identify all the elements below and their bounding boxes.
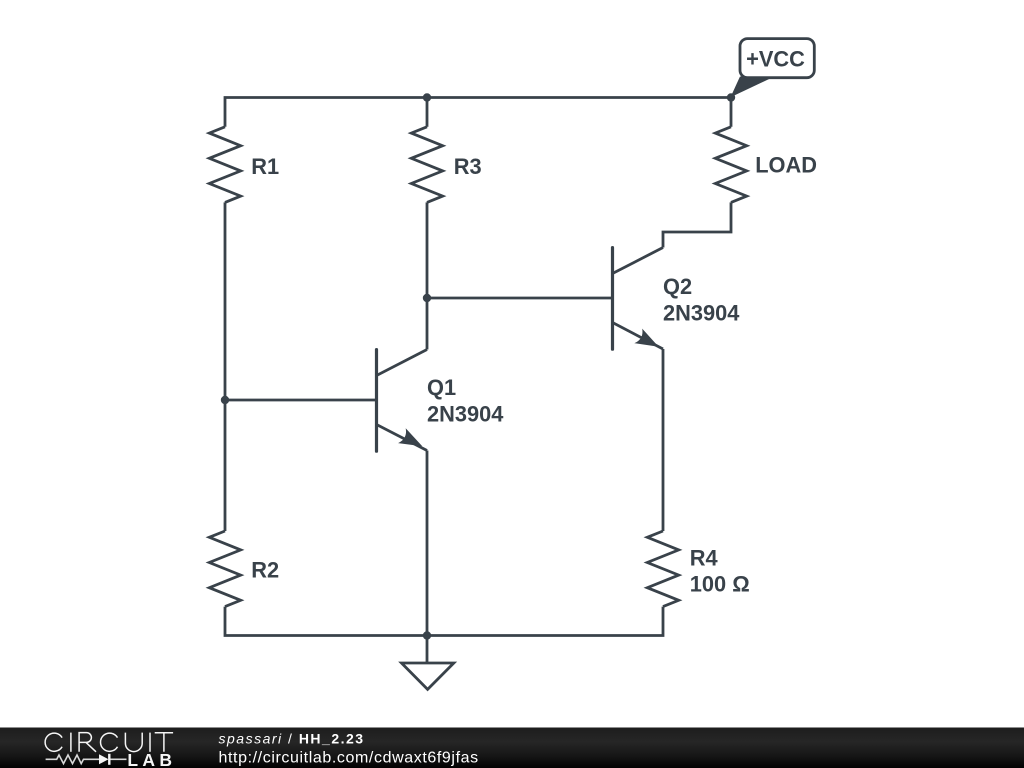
svg-text:Q1: Q1 bbox=[427, 375, 456, 400]
node junction Q2 base bbox=[423, 294, 431, 302]
svg-text:R2: R2 bbox=[251, 558, 279, 583]
wire R3 top stub bbox=[426, 98, 429, 127]
svg-text:100 Ω: 100 Ω bbox=[690, 571, 750, 596]
ground bbox=[402, 636, 454, 690]
svg-text:R4: R4 bbox=[690, 545, 718, 570]
wire top rail bbox=[225, 98, 731, 127]
transistor Q2 bbox=[613, 248, 664, 350]
svg-text:+VCC: +VCC bbox=[746, 47, 805, 72]
wire left rail middle bbox=[224, 202, 227, 531]
wire Q2 emitter to R4 bbox=[662, 349, 665, 531]
svg-text:2N3904: 2N3904 bbox=[663, 300, 739, 325]
svg-text:spassari / HH_2.23: spassari / HH_2.23 bbox=[219, 731, 365, 747]
wire R3 bottom to node bbox=[426, 202, 429, 298]
wire bottom rail bbox=[225, 607, 663, 636]
resistor R4 bbox=[647, 531, 678, 607]
node junction top VCC bbox=[727, 93, 735, 101]
svg-text:R1: R1 bbox=[251, 154, 279, 179]
net flag +VCC bbox=[731, 39, 815, 98]
wire Q1 base bbox=[225, 399, 377, 402]
svg-text:2N3904: 2N3904 bbox=[427, 401, 503, 426]
logo resistor-diode line bbox=[46, 754, 127, 765]
node junction ground bbox=[423, 631, 431, 639]
svg-text:Q2: Q2 bbox=[663, 274, 692, 299]
svg-text:LOAD: LOAD bbox=[755, 153, 817, 178]
node junction Q1 base bbox=[221, 396, 229, 404]
resistor R2 bbox=[209, 531, 240, 607]
wire node to Q1 collector bbox=[426, 298, 429, 350]
footer bar bbox=[0, 728, 1024, 768]
wire LOAD top stub bbox=[730, 98, 733, 127]
logo CIRCUIT wordmark bbox=[45, 733, 173, 752]
resistor LOAD bbox=[715, 127, 746, 203]
resistor R1 bbox=[209, 127, 240, 203]
svg-text:http://circuitlab.com/cdwaxt6f: http://circuitlab.com/cdwaxt6f9jfas bbox=[219, 750, 479, 767]
wire Q2 collector to LOAD bbox=[663, 202, 731, 247]
resistor R3 bbox=[411, 127, 442, 203]
svg-text:R3: R3 bbox=[454, 154, 482, 179]
svg-text:LAB: LAB bbox=[127, 750, 176, 768]
transistor Q1 bbox=[377, 350, 428, 452]
wire Q2 base bbox=[427, 297, 613, 300]
wire Q1 emitter vertical bbox=[426, 451, 429, 636]
node junction top R3 bbox=[423, 93, 431, 101]
